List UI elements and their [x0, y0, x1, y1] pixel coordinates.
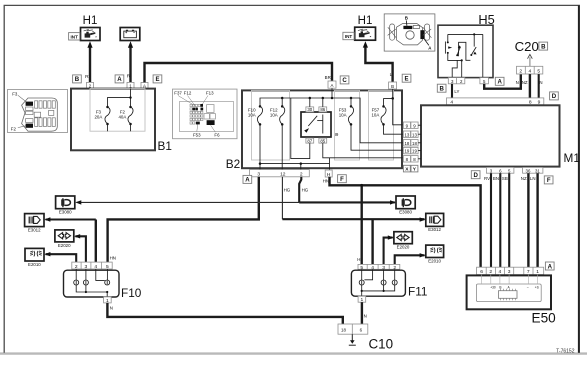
svg-text:85: 85 [320, 138, 325, 143]
svg-text:E3080: E3080 [399, 210, 412, 215]
M1 box [421, 105, 560, 166]
wire N: F10 pin1 to C10.18 [107, 303, 342, 324]
svg-text:F37: F37 [174, 91, 182, 96]
relay pin 30 box [306, 97, 314, 112]
svg-text:F13: F13 [206, 91, 214, 96]
svg-text:LY: LY [454, 89, 459, 94]
svg-text:30: 30 [307, 107, 312, 112]
connector label box D (M1 bottom) [471, 171, 480, 179]
connector label box A (B2 bottom) [243, 175, 252, 183]
fuse F12 10A [270, 98, 285, 170]
F10 connector body [64, 270, 120, 297]
H5 pins 3 2 strip [448, 78, 465, 84]
svg-text:F10: F10 [121, 286, 142, 300]
wire SB M1.5 to E50.3 [508, 173, 510, 267]
H5 pin 5 box [480, 78, 489, 84]
svg-text:6: 6 [480, 269, 483, 275]
wire to E3012 left from F10.4 [44, 217, 95, 262]
wire N: F11 pin1 to C10.6 [361, 302, 363, 324]
svg-text:E2020: E2020 [397, 245, 410, 250]
E50 box [467, 275, 551, 309]
component E2010 (left) [25, 248, 44, 261]
wire R to battery with arrow [128, 41, 133, 82]
B2 supply rail [260, 88, 403, 143]
svg-text:A: A [548, 263, 553, 270]
svg-text:4: 4 [499, 269, 502, 275]
component E2020 (right) [394, 232, 412, 244]
svg-text:B: B [439, 86, 444, 93]
connector label box B (C20) [539, 42, 548, 50]
svg-text:18: 18 [404, 141, 409, 146]
svg-text:N: N [110, 305, 113, 310]
F11 pin strip 5 4 3 2 [358, 264, 400, 270]
component E3080 (left) [56, 196, 75, 209]
svg-text:D: D [473, 172, 478, 179]
svg-text:86: 86 [320, 107, 325, 112]
line B2.12 to F11.4 and E3012 right [282, 217, 425, 264]
component E3080 (right) [396, 196, 415, 209]
svg-text:3: 3 [257, 172, 260, 178]
svg-text:B2: B2 [226, 157, 240, 171]
svg-text:18: 18 [412, 141, 417, 146]
connector label box E [153, 75, 162, 83]
wire HN: B2 pin 3 to F10.5 [108, 177, 259, 262]
C20 pin strip 2 4 5 [517, 66, 543, 74]
svg-text:10A: 10A [270, 113, 278, 118]
component E2020 (left) [55, 230, 74, 242]
B2/M1 interlink pin column X [403, 122, 410, 162]
svg-text:C: C [342, 77, 347, 84]
battery icon box [120, 28, 140, 41]
E50 pin strip 6 2 4 3 7 1 [477, 267, 544, 275]
INT tag (left) [69, 33, 80, 40]
svg-text:B: B [75, 76, 80, 83]
wire N from H5 pin5 to C20 pin 2 [484, 74, 521, 89]
svg-text:B: B [405, 16, 408, 21]
wire HG: B2 pin 12 to F11.4 line [281, 177, 283, 219]
wire H bus: B2 pin H to F11.5 and E50.6 [330, 177, 481, 267]
F10 internals [74, 269, 110, 297]
svg-text:F: F [340, 176, 344, 183]
M1 bottom pin strip (36 31) [523, 167, 543, 173]
svg-text:+30: +30 [490, 286, 496, 290]
wire relay 85 to pin 8 and pin H [323, 143, 404, 170]
connector label box F (B2 bottom) [338, 175, 347, 183]
svg-text:M1: M1 [564, 151, 580, 165]
connector label box A (right of H5 pin 5) [495, 77, 504, 85]
connector label box E (B2 top) [402, 74, 411, 82]
svg-text:E50: E50 [532, 311, 557, 326]
svg-text:HN: HN [323, 179, 329, 184]
F10 pin strip 2 3 4 5 [72, 262, 112, 270]
svg-text:F6: F6 [214, 133, 220, 138]
horn H1 icon box (left) [81, 28, 101, 41]
svg-text:+S: +S [535, 286, 539, 290]
fuse F53 10A [339, 98, 404, 150]
B2 bottom pin strip (3 12 2) [250, 170, 310, 178]
svg-text:F53: F53 [193, 133, 201, 138]
connector label box A (E50) [545, 262, 554, 270]
svg-text:E2020: E2020 [58, 243, 71, 248]
wire to E2010 left from F10.2 [44, 252, 76, 262]
fuse F3 20A [94, 106, 110, 131]
wire to E2020 left from F10.3 [74, 234, 86, 262]
F10 pin 1 box [104, 297, 112, 304]
svg-text:7: 7 [527, 269, 530, 275]
svg-text:BR: BR [325, 75, 331, 80]
svg-text:D: D [552, 93, 557, 100]
wire LN M1.31 to E50.1 [536, 173, 538, 267]
B2 inner compartment (F57) [369, 90, 394, 160]
svg-text:3: 3 [508, 269, 511, 275]
svg-text:13: 13 [412, 132, 417, 137]
svg-text:INT: INT [70, 34, 78, 39]
svg-text:C20: C20 [515, 39, 539, 54]
svg-text:87: 87 [307, 138, 312, 143]
svg-text:N: N [516, 80, 519, 85]
wire rail to relay 87 [291, 98, 310, 159]
svg-text:31: 31 [535, 168, 540, 173]
svg-text:A: A [245, 177, 250, 184]
wire to E2010 right from F11.2 [395, 253, 426, 264]
wire NZ M1.36 to E50.7 [527, 173, 529, 267]
svg-text:13: 13 [404, 132, 409, 137]
svg-text:A: A [497, 79, 502, 86]
svg-text:N: N [539, 80, 542, 85]
svg-text:19: 19 [412, 149, 417, 154]
B1 pin 2 box [87, 82, 94, 88]
wire NZ C20 pin4 to M1 pin 8 [529, 74, 531, 98]
B1 inner compartment [90, 89, 145, 132]
svg-text:E2010: E2010 [428, 258, 441, 263]
svg-text:E3012: E3012 [28, 227, 41, 232]
svg-text:F2: F2 [11, 126, 17, 131]
svg-text:–: – [527, 286, 529, 290]
relay internals [304, 115, 323, 134]
connector label box B [73, 75, 82, 83]
svg-text:B: B [541, 43, 546, 50]
B1 box [71, 89, 155, 151]
connector label box C [340, 76, 349, 84]
svg-text:10A: 10A [248, 113, 256, 118]
svg-text:F3: F3 [12, 92, 18, 97]
H5 switch box [438, 25, 493, 77]
M1 top pin strip (4 8 9) [447, 98, 544, 106]
B1 pin 1 box [127, 82, 134, 88]
B2 pin H box [325, 170, 332, 178]
svg-text:E3080: E3080 [59, 210, 72, 215]
svg-text:20A: 20A [94, 114, 102, 119]
svg-text:B1: B1 [158, 139, 172, 153]
branch wire fuse F10 output to pin 2 and pin H net [259, 162, 330, 169]
svg-text:E2010: E2010 [28, 262, 41, 267]
M1 bottom pin strip (3 6 5) [486, 167, 514, 173]
svg-text:RV: RV [484, 176, 490, 181]
svg-text:I9: I9 [335, 132, 339, 137]
svg-text:H: H [357, 257, 360, 262]
ground symbol C10 [349, 334, 356, 345]
svg-text:NZ: NZ [522, 80, 528, 85]
wire from B1 pin A to B2 pin A [145, 63, 333, 82]
svg-text:SB: SB [502, 176, 508, 181]
svg-text:HG: HG [302, 187, 309, 192]
svg-text:3: 3 [85, 264, 88, 270]
label box X [403, 165, 410, 172]
wire L from B2 pin B to H1 with arrow [363, 41, 393, 82]
B1 fusebox location inset [8, 90, 68, 133]
svg-text:C10: C10 [369, 336, 394, 351]
E50 inner module [476, 275, 541, 302]
svg-text:A: A [331, 83, 334, 88]
svg-text:1: 1 [536, 269, 539, 275]
C20 supply arrow symbol [528, 54, 533, 66]
F11 connector body [351, 270, 405, 296]
svg-text:2: 2 [75, 264, 78, 270]
component E2010 (right) [426, 245, 444, 257]
svg-text:N: N [364, 314, 367, 319]
wire LY from H5 pin3 to M1 pin 4 [451, 84, 453, 98]
svg-text:H1: H1 [358, 15, 373, 27]
svg-text:F12: F12 [184, 91, 192, 96]
svg-text:T-76152: T-76152 [556, 349, 575, 355]
svg-text:4: 4 [94, 264, 97, 270]
wire B2 pin B to pin 9 [391, 89, 403, 125]
svg-text:HN: HN [110, 255, 116, 260]
B2 inner compartment (F53) [335, 90, 360, 160]
svg-text:B: B [391, 84, 394, 89]
wire N C20 pin5 to M1 pin 9 [538, 74, 540, 98]
svg-text:5: 5 [537, 69, 540, 75]
horn component drawing [384, 14, 435, 51]
connector label box A [115, 75, 124, 83]
B2 fusebox location inset [173, 89, 238, 139]
svg-text:18: 18 [341, 327, 346, 332]
svg-text:INT: INT [345, 34, 353, 39]
svg-text:5: 5 [106, 264, 109, 270]
wire to E2020 right from F11.3 [384, 235, 394, 264]
connector label box F (M1 bottom) [544, 176, 553, 184]
relay pin 85 box [319, 138, 327, 143]
horn H1 icon box (right) [355, 27, 376, 40]
svg-text:2: 2 [300, 172, 303, 178]
B2 top pin A box [328, 81, 336, 88]
wire HG: B2 pin 2 to horn line [299, 177, 301, 203]
svg-text:F11: F11 [408, 285, 427, 299]
svg-text:E: E [155, 76, 159, 83]
fuse F57 10A [371, 98, 403, 134]
svg-text:10A: 10A [339, 113, 347, 118]
horn feed line E3080 left-right [75, 200, 396, 204]
svg-text:NZ: NZ [521, 176, 527, 181]
svg-text:10A: 10A [371, 113, 379, 118]
B2 top pin B box [389, 82, 397, 89]
F11 internals [359, 269, 397, 296]
component E3012 (left) [25, 214, 44, 227]
fuse F2 40A [118, 106, 133, 131]
wire BN M1.6 to E50.4 [499, 173, 501, 267]
wire RV M1.3 to E50.2 [490, 173, 492, 267]
svg-text:HG: HG [284, 187, 291, 192]
svg-text:12: 12 [280, 172, 286, 178]
svg-text:4: 4 [529, 69, 532, 75]
relay pin 86 box [319, 98, 327, 112]
svg-text:19: 19 [404, 149, 409, 154]
relay pin 87 box [306, 138, 314, 143]
svg-text:F: F [547, 177, 551, 184]
fuse F10 10A [248, 105, 263, 169]
svg-text:2: 2 [489, 269, 492, 275]
svg-text:E: E [405, 76, 409, 83]
relay I9 box [301, 112, 331, 137]
svg-text:E3012: E3012 [428, 227, 441, 232]
C10 connector [338, 324, 368, 334]
B1 pin A box [141, 82, 148, 88]
B2 inner compartment (F10/F12) [252, 90, 290, 160]
F11 pin 1 box [358, 296, 366, 303]
connector label box B (below H5) [437, 84, 446, 92]
B1 feed jog wire [108, 89, 131, 107]
svg-text:2: 2 [519, 69, 522, 75]
H5 switch internals [445, 33, 482, 77]
label box Y [411, 165, 418, 172]
svg-text:BN: BN [493, 176, 499, 181]
svg-text:40A: 40A [118, 114, 126, 119]
B2/M1 interlink pin column Y [411, 122, 421, 162]
svg-text:R: R [127, 73, 131, 79]
svg-text:LN: LN [530, 176, 536, 181]
svg-text:R: R [85, 74, 89, 80]
wire R to H1 with arrow [87, 41, 92, 82]
connector label box D (above M1) [550, 92, 559, 100]
svg-text:H1: H1 [83, 15, 98, 27]
component E3012 (right) [426, 213, 444, 226]
B2 box [242, 90, 402, 168]
svg-text:A: A [117, 76, 122, 83]
INT tag (right) [343, 32, 354, 39]
svg-text:36: 36 [526, 168, 531, 173]
